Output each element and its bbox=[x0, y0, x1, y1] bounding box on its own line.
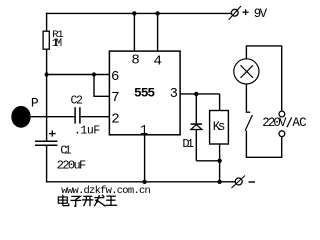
svg-text:220V: 220V bbox=[262, 116, 287, 130]
svg-text:1M: 1M bbox=[52, 38, 62, 50]
svg-text:9V: 9V bbox=[254, 7, 268, 21]
svg-text:7: 7 bbox=[111, 90, 119, 106]
svg-text:.1uF: .1uF bbox=[74, 125, 100, 138]
svg-text:P: P bbox=[31, 96, 39, 111]
svg-text:C1: C1 bbox=[60, 143, 71, 157]
svg-text:D1: D1 bbox=[182, 137, 194, 151]
svg-text:220uF: 220uF bbox=[57, 158, 86, 172]
svg-text:8: 8 bbox=[131, 53, 139, 69]
svg-text:3: 3 bbox=[170, 87, 178, 102]
svg-text:AC: AC bbox=[292, 116, 306, 130]
svg-text:Ks: Ks bbox=[213, 120, 226, 134]
svg-text:2: 2 bbox=[111, 111, 119, 127]
svg-text:4: 4 bbox=[154, 54, 162, 70]
svg-text:6: 6 bbox=[111, 69, 119, 85]
svg-text:555: 555 bbox=[134, 86, 155, 101]
svg-text:1: 1 bbox=[140, 123, 148, 139]
svg-text:C2: C2 bbox=[71, 94, 83, 107]
svg-text:www.dzkfw.com.cn: www.dzkfw.com.cn bbox=[61, 185, 151, 197]
